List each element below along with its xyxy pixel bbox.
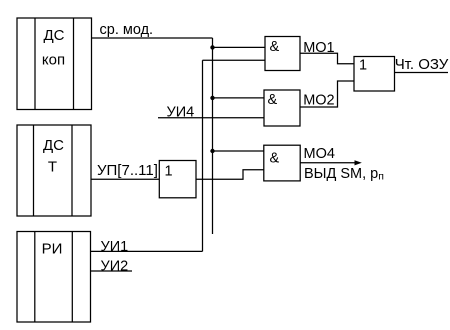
svg-text:УИ1: УИ1	[101, 239, 129, 255]
wire tap to MO1 top input	[213, 46, 266, 48]
svg-text:1: 1	[359, 58, 367, 74]
svg-text:РИ: РИ	[42, 241, 63, 258]
junction dot node MO2 tap	[210, 96, 214, 100]
svg-text:Чт. ОЗУ: Чт. ОЗУ	[395, 56, 449, 73]
svg-text:MO2: MO2	[303, 93, 334, 109]
or-gate 1 (Cht.OZU)	[354, 57, 395, 92]
block DS-T	[17, 125, 91, 216]
svg-text:ДС: ДС	[44, 27, 65, 44]
and-gate MO4	[264, 145, 300, 181]
wire UP[7..11] to or-gate	[91, 178, 159, 180]
wire UI1 horizontal	[91, 250, 203, 252]
or-gate 1 (after UP[7..11])	[159, 161, 196, 198]
junction dot node MO4 tap	[210, 149, 214, 153]
wire MO4 output arrow	[300, 162, 358, 164]
svg-text:&: &	[270, 151, 280, 167]
svg-text:Т: Т	[48, 159, 57, 176]
svg-text:УИ4: УИ4	[167, 104, 195, 120]
svg-text:ср. мод.: ср. мод.	[100, 22, 154, 38]
wire UI2 stub	[91, 270, 133, 272]
wire UI1 bus vertical	[202, 60, 204, 251]
wire MO1 output to or-gate	[300, 53, 354, 64]
svg-text:1: 1	[165, 164, 173, 180]
svg-text:УИ2: УИ2	[101, 259, 129, 275]
svg-text:&: &	[270, 39, 280, 55]
svg-text:УП[7..11]: УП[7..11]	[97, 162, 158, 179]
junction dot node MO1 tap	[210, 45, 214, 49]
wire tap to MO2 top input	[213, 97, 265, 99]
wire UI1 to MO1 bottom input	[203, 59, 266, 61]
svg-text:ВЫД SM, pп: ВЫД SM, pп	[304, 166, 384, 183]
wire tap to MO4 top input	[213, 150, 265, 152]
and-gate MO1	[265, 37, 300, 71]
and-gate MO2	[264, 90, 300, 126]
wire or-gate output to MO4 bottom input	[196, 170, 264, 180]
wire UI4 to MO2 bottom input	[158, 117, 264, 119]
block RI	[17, 232, 91, 323]
svg-text:MO4: MO4	[304, 146, 335, 162]
block DS-kop	[17, 18, 92, 110]
svg-text:MO1: MO1	[303, 40, 334, 56]
arrowhead MO4 output	[355, 160, 362, 165]
wire MO2 output to or-gate	[300, 81, 354, 107]
svg-text:коп: коп	[42, 52, 65, 69]
svg-text:ДС: ДС	[43, 137, 64, 154]
svg-text:&: &	[268, 92, 278, 108]
wire bus sr.mod. vertical	[212, 38, 214, 234]
wire sr.mod. horizontal	[92, 37, 213, 39]
wire Cht.OZU output	[395, 72, 449, 74]
